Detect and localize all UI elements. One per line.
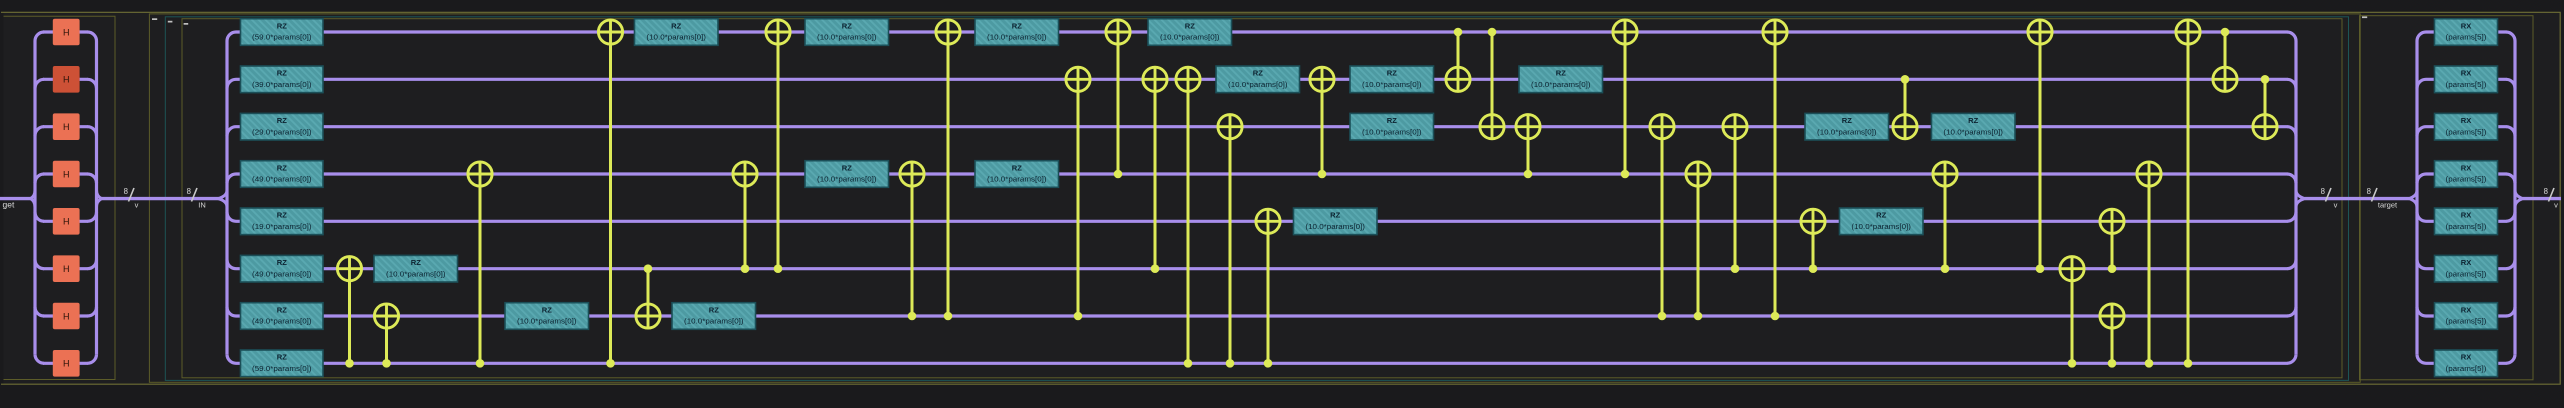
H gate q1 [53,66,80,93]
RZ gate q1 (39.0*params[0]) [241,66,324,93]
CX gate: control q3, target q2, vertical connector [1527,127,1530,174]
CX target plus-circle on q4 [1256,209,1280,233]
CX gate: control q0, target q2, vertical connector [1491,32,1494,127]
CX gate: control q1, target q2, vertical connector [1904,79,1907,126]
CX gate: control q7, target q6, vertical connector [2111,316,2114,363]
svg-text:RZ: RZ [277,21,287,30]
CX gate: control q5, target q0, vertical connector [777,32,780,269]
svg-text:RZ: RZ [1253,69,1263,78]
CX target plus-circle on q0 [2028,20,2052,44]
CX target plus-circle on q6 [636,304,660,328]
RZ gate q4 (19.0*params[0]) [241,208,324,235]
qubit wire q4 main segment [236,220,2288,223]
svg-text:RX: RX [2461,353,2472,362]
CX gate: control q6, target q0, vertical connector [947,32,950,316]
svg-text:RX: RX [2461,69,2472,78]
svg-text:H: H [63,169,70,179]
svg-text:RZ: RZ [277,258,287,267]
RZ gate q6 (49.0*params[0]) [241,303,324,330]
CX control dot on q0 [1488,28,1497,37]
svg-text:RZ: RZ [1387,69,1397,78]
svg-text:(params[5]): (params[5]) [2446,319,2487,326]
main section inner olive frame [182,19,2342,378]
CX gate: control q7, target q5, vertical connector [348,269,351,364]
CX gate: control q6, target q0, vertical connector [1774,32,1777,316]
RZ gate q4 (10.0*params[0]) [1840,208,1924,235]
svg-text:RZ: RZ [671,21,681,30]
svg-text:(10.0*params[0]): (10.0*params[0]) [1817,129,1877,136]
CX gate: control q5, target q4, vertical connector [2111,221,2114,268]
svg-text:(19.0*params[0]): (19.0*params[0]) [252,224,312,231]
CX control dot on q5 [1809,264,1818,273]
RZ gate q0 (59.0*params[0]) [241,19,324,46]
CX gate: control q5, target q4, vertical connector [1812,221,1815,268]
RX gate q2 (params[5]) [2435,113,2498,140]
svg-text:H: H [63,217,70,227]
CX target plus-circle on q3 [468,162,492,186]
bus wire left edge into state-prep block [0,197,31,200]
svg-text:RZ: RZ [842,163,852,172]
bus fan-in after state-prep block [88,32,102,363]
svg-text:(29.0*params[0]): (29.0*params[0]) [252,129,312,136]
CX target plus-circle on q2 [1480,115,1504,139]
svg-text:RX: RX [2461,163,2472,172]
collapse dash teal frame [168,21,173,23]
qubit wire q3 RX segment [2426,172,2507,175]
RZ gate q5 (10.0*params[0]) [374,255,458,282]
bus width marker 8/ label v (right edge) [2544,187,2558,210]
CX control dot on q6 [1771,312,1780,321]
svg-text:(10.0*params[0]): (10.0*params[0]) [987,177,1047,184]
CX target plus-circle on q1 [1310,67,1334,91]
bus fan-out into RX section [2409,32,2426,363]
CX control dot on q3 [1621,170,1630,179]
CX target plus-circle on q6 [2100,304,2124,328]
svg-text:RZ: RZ [277,211,287,220]
bus width marker 8/ label v (main out) [2321,187,2338,210]
qubit wire q1 state-prep segment [43,78,88,81]
collapse dash RX frame [2362,16,2367,18]
H gate q0 [53,19,80,46]
svg-text:RX: RX [2461,116,2472,125]
svg-text:RZ: RZ [709,305,719,314]
svg-text:RX: RX [2461,211,2472,220]
svg-text:(10.0*params[0]): (10.0*params[0]) [1228,82,1288,89]
svg-text:v: v [135,201,139,210]
CX control dot on q6 [1694,312,1703,321]
svg-text:(39.0*params[0]): (39.0*params[0]) [252,82,312,89]
RX gate q0 (params[5]) [2435,19,2498,46]
svg-text:target: target [2378,201,2398,210]
svg-text:8: 8 [2544,187,2548,196]
RX gate q7 (params[5]) [2435,350,2498,377]
CX gate: control q7, target q3, vertical connector [479,174,482,363]
svg-text:(59.0*params[0]): (59.0*params[0]) [252,366,312,373]
svg-text:(params[5]): (params[5]) [2446,271,2487,278]
CX target plus-circle on q1 [1176,67,1200,91]
svg-text:RZ: RZ [1012,21,1022,30]
CX gate: control q5, target q0, vertical connector [2039,32,2042,269]
svg-text:RZ: RZ [842,21,852,30]
svg-text:RZ: RZ [1012,163,1022,172]
qubit wire q6 main segment [236,314,2288,317]
H gate q5 [53,255,80,282]
CX target plus-circle on q0 [598,20,622,44]
CX target plus-circle on q3 [2137,162,2161,186]
svg-text:(10.0*params[0]): (10.0*params[0]) [1362,129,1422,136]
qubit wire q0 state-prep segment [43,30,88,33]
qubit wire q0 main segment [236,30,2288,33]
RZ gate q0 (10.0*params[0]) [975,19,1059,46]
CX target plus-circle on q2 [1218,115,1242,139]
RZ gate q2 (10.0*params[0]) [1932,113,2016,140]
qubit wire q7 RX segment [2426,362,2507,365]
H gate q3 [53,161,80,188]
CX gate: control q7, target q3, vertical connector [2148,174,2151,363]
CX control dot on q5 [1151,264,1160,273]
svg-text:8: 8 [2367,187,2371,196]
bus wire between state-prep and main section [101,197,219,200]
CX control dot on q6 [1658,312,1667,321]
CX target plus-circle on q6 [374,304,398,328]
CX control dot on q6 [908,312,917,321]
svg-text:(59.0*params[0]): (59.0*params[0]) [252,35,312,42]
CX target plus-circle on q3 [900,162,924,186]
collapse dash inner frame [184,23,189,25]
svg-text:RZ: RZ [1330,211,1340,220]
qubit wire q2 state-prep segment [43,125,88,128]
qubit wire q5 state-prep segment [43,267,88,270]
CX target plus-circle on q0 [1763,20,1787,44]
CX control dot on q3 [1524,170,1533,179]
svg-text:H: H [63,75,70,85]
RZ gate q7 (59.0*params[0]) [241,350,324,377]
CX control dot on q5 [2108,264,2117,273]
CX target plus-circle on q4 [2100,209,2124,233]
CX control dot on q1 [2261,75,2270,84]
CX gate: control q7, target q6, vertical connector [385,316,388,363]
CX control dot on q5 [1941,264,1950,273]
CX control dot on q5 [2036,264,2045,273]
CX gate: control q5, target q2, vertical connector [1734,127,1737,269]
RZ gate q4 (10.0*params[0]) [1294,208,1378,235]
svg-text:(49.0*params[0]): (49.0*params[0]) [252,271,312,278]
CX gate: control q7, target q0, vertical connector [609,32,612,363]
qubit wire q3 state-prep segment [43,172,88,175]
H gate q2 [53,113,80,140]
bus width marker 8/ label target [2367,187,2398,210]
CX gate: control q5, target q6, vertical connector [647,269,650,316]
svg-text:(10.0*params[0]): (10.0*params[0]) [1531,82,1591,89]
CX control dot on q7 [2068,359,2077,368]
svg-text:RZ: RZ [277,353,287,362]
RX gate q4 (params[5]) [2435,208,2498,235]
CX control dot on q0 [1454,28,1463,37]
CX target plus-circle on q3 [1686,162,1710,186]
CX target plus-circle on q0 [1106,20,1130,44]
svg-text:H: H [63,27,70,37]
CX control dot on q0 [2221,28,2230,37]
main section outer olive frame [149,14,2360,382]
qubit wire q1 main segment [236,78,2288,81]
CX gate: control q0, target q1, vertical connector [2224,32,2227,79]
qubit wire q2 RX segment [2426,125,2507,128]
CX gate: control q7, target q1, vertical connector [1187,79,1190,363]
svg-text:(10.0*params[0]): (10.0*params[0]) [1851,224,1911,231]
CX target plus-circle on q0 [1613,20,1637,44]
svg-text:(10.0*params[0]): (10.0*params[0]) [1943,129,2003,136]
qubit wire q3 main segment [236,172,2288,175]
CX control dot on q6 [1074,312,1083,321]
CX control dot on q6 [944,312,953,321]
svg-text:(params[5]): (params[5]) [2446,224,2487,231]
CX target plus-circle on q0 [2176,20,2200,44]
svg-text:RZ: RZ [277,116,287,125]
svg-text:RZ: RZ [1876,211,1886,220]
CX gate: control q0, target q1, vertical connector [1457,32,1460,79]
svg-text:(10.0*params[0]): (10.0*params[0]) [386,271,446,278]
bus fan-out into main section [218,32,236,363]
RZ gate q1 (10.0*params[0]) [1216,66,1300,93]
svg-text:RZ: RZ [1842,116,1852,125]
RX gate q1 (params[5]) [2435,66,2498,93]
qubit wire q4 RX segment [2426,220,2507,223]
svg-text:H: H [63,264,70,274]
svg-text:RZ: RZ [1556,69,1566,78]
CX gate: control q1, target q2, vertical connector [2264,79,2267,126]
svg-text:8: 8 [2321,187,2325,196]
svg-text:v: v [2334,201,2338,210]
right RX section frame [2360,16,2534,380]
CX control dot on q7 [382,359,391,368]
left register label "get" [3,200,15,210]
svg-text:RZ: RZ [542,305,552,314]
CX target plus-circle on q2 [1723,115,1747,139]
H gate q4 [53,208,80,235]
CX control dot on q7 [606,359,615,368]
svg-text:(params[5]): (params[5]) [2446,35,2487,42]
svg-text:RX: RX [2461,305,2472,314]
RX gate q3 (params[5]) [2435,161,2498,188]
CX target plus-circle on q3 [1933,162,1957,186]
svg-text:(params[5]): (params[5]) [2446,366,2487,373]
svg-text:RZ: RZ [1185,21,1195,30]
svg-text:(49.0*params[0]): (49.0*params[0]) [252,319,312,326]
bus width marker 8/ label IN [187,187,206,210]
CX control dot on q7 [1226,359,1235,368]
svg-text:(10.0*params[0]): (10.0*params[0]) [517,319,577,326]
svg-text:IN: IN [198,201,206,210]
RZ gate q3 (10.0*params[0]) [975,161,1059,188]
CX control dot on q7 [1264,359,1273,368]
svg-text:(10.0*params[0]): (10.0*params[0]) [646,35,706,42]
RZ gate q2 (10.0*params[0]) [1805,113,1889,140]
CX control dot on q5 [644,264,653,273]
svg-text:RZ: RZ [277,69,287,78]
CX gate: control q5, target q3, vertical connector [744,174,747,269]
qubit wire q7 main segment [236,362,2288,365]
CX target plus-circle on q2 [1650,115,1674,139]
CX gate: control q7, target q5, vertical connector [2071,269,2074,364]
CX control dot on q3 [1318,170,1327,179]
RZ gate q6 (10.0*params[0]) [505,303,589,330]
qubit wire q5 RX segment [2426,267,2507,270]
RZ gate q2 (10.0*params[0]) [1350,113,1434,140]
qubit wire q4 state-prep segment [43,220,88,223]
qubit wire q7 state-prep segment [43,362,88,365]
H gate q7 [53,350,80,377]
CX control dot on q7 [476,359,485,368]
svg-text:(10.0*params[0]): (10.0*params[0]) [684,319,744,326]
bus fan-out into state-prep block [31,32,45,363]
RZ gate q6 (10.0*params[0]) [672,303,756,330]
left section frame (state-prep block) [4,16,116,379]
CX control dot on q7 [2108,359,2117,368]
svg-text:(10.0*params[0]): (10.0*params[0]) [1305,224,1365,231]
RZ gate q0 (10.0*params[0]) [1148,19,1232,46]
CX target plus-circle on q1 [1143,67,1167,91]
CX target plus-circle on q4 [1801,209,1825,233]
RZ gate q0 (10.0*params[0]) [635,19,719,46]
qubit wire q6 RX segment [2426,314,2507,317]
bus fan-in after RX section [2506,32,2523,363]
svg-text:8: 8 [187,187,191,196]
CX control dot on q7 [345,359,354,368]
bus fan-in after main section [2287,32,2305,363]
CX target plus-circle on q1 [1446,67,1470,91]
CX target plus-circle on q2 [1893,115,1917,139]
CX control dot on q1 [1901,75,1910,84]
RZ gate q5 (49.0*params[0]) [241,255,324,282]
CX target plus-circle on q0 [766,20,790,44]
CX gate: control q6, target q3, vertical connector [911,174,914,316]
svg-text:RZ: RZ [277,305,287,314]
qubit wire q6 state-prep segment [43,314,88,317]
CX target plus-circle on q1 [2213,67,2237,91]
CX control dot on q3 [1114,170,1123,179]
CX gate: control q6, target q3, vertical connector [1697,174,1700,316]
svg-text:(10.0*params[0]): (10.0*params[0]) [817,35,877,42]
CX control dot on q5 [1731,264,1740,273]
CX gate: control q5, target q1, vertical connector [1154,79,1157,268]
CX gate: control q7, target q2, vertical connector [1229,127,1232,364]
CX gate: control q6, target q2, vertical connector [1661,127,1664,316]
CX gate: control q3, target q0, vertical connector [1624,32,1627,174]
svg-text:(49.0*params[0]): (49.0*params[0]) [252,177,312,184]
svg-text:get: get [3,200,15,210]
RX gate q5 (params[5]) [2435,255,2498,282]
qubit wire q2 main segment [236,125,2288,128]
RZ gate q3 (10.0*params[0]) [805,161,889,188]
RX gate q6 (params[5]) [2435,303,2498,330]
CX control dot on q7 [2145,359,2154,368]
CX gate: control q7, target q0, vertical connector [2187,32,2190,363]
RZ gate q1 (10.0*params[0]) [1519,66,1603,93]
svg-text:RZ: RZ [1968,116,1978,125]
bus width marker 8/ label v [124,187,139,210]
CX target plus-circle on q5 [2060,257,2084,281]
svg-text:H: H [63,311,70,321]
CX gate: control q3, target q0, vertical connector [1117,32,1120,174]
CX target plus-circle on q2 [2253,115,2277,139]
svg-text:(params[5]): (params[5]) [2446,82,2487,89]
svg-text:RX: RX [2461,258,2472,267]
svg-text:(10.0*params[0]): (10.0*params[0]) [987,35,1047,42]
collapse dash main outer frame [152,18,157,20]
CX target plus-circle on q5 [337,257,361,281]
CX control dot on q7 [1184,359,1193,368]
CX target plus-circle on q3 [733,162,757,186]
svg-text:H: H [63,122,70,132]
CX gate: control q6, target q1, vertical connector [1077,79,1080,316]
RZ gate q2 (29.0*params[0]) [241,113,324,140]
CX gate: control q7, target q4, vertical connector [1267,221,1270,363]
qubit wire q0 RX segment [2426,30,2507,33]
bus wire between main section and RX section [2305,197,2409,200]
CX gate: control q5, target q3, vertical connector [1944,174,1947,269]
RZ gate q3 (49.0*params[0]) [241,161,324,188]
svg-text:v: v [2554,201,2558,210]
CX target plus-circle on q0 [936,20,960,44]
svg-text:8: 8 [124,187,128,196]
svg-text:(params[5]): (params[5]) [2446,177,2487,184]
RZ gate q1 (10.0*params[0]) [1350,66,1434,93]
svg-text:RZ: RZ [411,258,421,267]
svg-text:(10.0*params[0]): (10.0*params[0]) [817,177,877,184]
qubit wire q5 main segment [236,267,2288,270]
svg-text:H: H [63,359,70,369]
svg-text:RZ: RZ [1387,116,1397,125]
bus wire right edge [2523,197,2561,200]
svg-text:RZ: RZ [277,163,287,172]
H gate q6 [53,303,80,330]
qubit wire q1 RX segment [2426,78,2507,81]
CX control dot on q5 [774,264,783,273]
CX target plus-circle on q2 [1516,115,1540,139]
svg-text:(10.0*params[0]): (10.0*params[0]) [1362,82,1422,89]
CX gate: control q3, target q1, vertical connector [1321,79,1324,174]
main section teal frame [165,17,2348,381]
CX target plus-circle on q1 [1066,67,1090,91]
svg-text:(10.0*params[0]): (10.0*params[0]) [1160,35,1220,42]
svg-text:(params[5]): (params[5]) [2446,129,2487,136]
RZ gate q0 (10.0*params[0]) [805,19,889,46]
CX control dot on q7 [2184,359,2193,368]
CX control dot on q5 [741,264,750,273]
svg-text:RX: RX [2461,21,2472,30]
